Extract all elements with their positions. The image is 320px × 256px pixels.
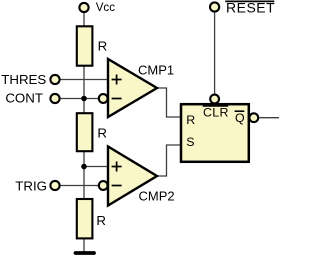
resistor R3 <box>77 199 93 238</box>
wire R3 to ground <box>83 238 85 253</box>
terminal CONT <box>50 94 59 103</box>
node junction CONT / divider <box>81 96 87 102</box>
wire R2 to R3 (divider rail) <box>83 151 85 201</box>
terminal RESET <box>210 2 219 11</box>
wire Q output <box>258 117 279 119</box>
resistor R1 <box>77 26 93 65</box>
pin bubble CMP1 inverting input <box>99 94 108 103</box>
svg-text:CMP2: CMP2 <box>139 188 175 203</box>
terminal TRIG <box>50 181 59 190</box>
terminal Vcc <box>79 3 88 12</box>
wire TRIG to CMP2 - input bubble <box>60 185 99 187</box>
svg-text:CONT: CONT <box>5 91 43 106</box>
ground <box>76 251 95 255</box>
pin bubble Q output <box>249 113 258 122</box>
resistor R2 <box>77 113 93 151</box>
svg-text:CMP1: CMP1 <box>138 62 174 77</box>
op-amp CMP2 <box>108 147 157 206</box>
terminal THRES <box>50 75 59 84</box>
svg-text:R: R <box>98 38 108 53</box>
node junction CMP2 + / divider <box>81 164 87 170</box>
wire CMP2 output to S input of latch <box>157 145 181 176</box>
svg-text:CLR: CLR <box>203 105 229 119</box>
svg-text:Q: Q <box>235 111 245 125</box>
op-amp CMP1 <box>108 59 157 117</box>
pin bubble CMP2 inverting input <box>99 181 108 190</box>
svg-text:R: R <box>186 113 195 127</box>
flip-flop U1 (SR latch) <box>181 104 249 162</box>
svg-text:S: S <box>186 135 194 149</box>
wire THRES to CMP1 + input <box>60 79 109 81</box>
wire RESET to CLR bubble <box>214 13 216 94</box>
wire CMP1 output to R input of latch <box>157 88 181 117</box>
svg-text:THRES: THRES <box>1 72 46 87</box>
svg-text:TRIG: TRIG <box>15 179 47 194</box>
wire divider tap to CMP2 + input <box>84 166 109 168</box>
wire CONT to CMP1 - input bubble <box>60 98 99 100</box>
svg-text:R: R <box>97 126 107 141</box>
svg-text:RESET: RESET <box>226 0 275 16</box>
pin label CLR (active low) <box>203 105 229 119</box>
svg-text:R: R <box>96 213 106 228</box>
pin label Q (inverted output) <box>235 111 245 125</box>
wire R1 to R2 (divider rail) <box>83 65 85 114</box>
label RESET (active low) <box>225 0 275 16</box>
pin bubble CLR input <box>210 95 219 104</box>
wire Vcc to R1 <box>83 13 85 27</box>
svg-text:Vcc: Vcc <box>96 1 116 14</box>
